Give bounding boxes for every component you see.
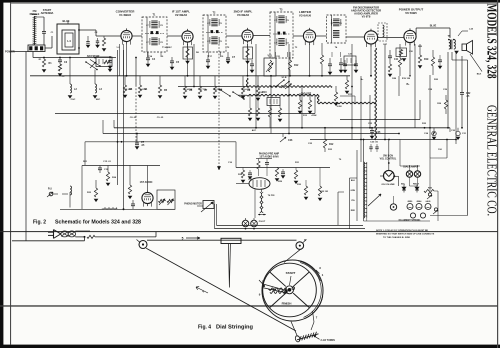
boxed resistor under V3 (243, 44, 253, 64)
svg-text:V3 6AU6: V3 6AU6 (299, 13, 312, 17)
wire speaker field return (430, 215, 468, 217)
wire long vertical 302 (301, 86, 303, 128)
svg-text:R6 470K: R6 470K (184, 88, 193, 91)
dial lamp L5 (406, 171, 412, 177)
wire phono cluster top (82, 165, 160, 167)
wire L4 to V1 grid (79, 30, 121, 36)
wire audio line (178, 44, 247, 95)
resistor R16 (334, 86, 338, 106)
wire long vertical 430 (429, 75, 431, 158)
FM antenna transformer L4 (57, 21, 80, 54)
svg-text:6BA6: 6BA6 (417, 200, 422, 203)
power output tube V6 (404, 30, 416, 42)
capacitor C25 (370, 128, 381, 139)
svg-text:6AU6: 6AU6 (426, 200, 431, 203)
resistor R43 (278, 106, 282, 122)
wire V1 pin drops (120, 44, 124, 76)
svg-text:R12: R12 (294, 64, 299, 67)
svg-text:V3 6BA6: V3 6BA6 (237, 13, 250, 17)
svg-text:OSC: OSC (71, 99, 76, 101)
pilot lamp P2 (251, 218, 258, 227)
capacitor C9 (328, 58, 332, 75)
resistor R4 (138, 76, 148, 98)
capacitor C17 (248, 170, 252, 179)
svg-text:TO THE CHASSIS B- SIDE: TO THE CHASSIS B- SIDE (383, 236, 410, 239)
tension spring (295, 332, 320, 343)
tuning gang dashed link (217, 44, 220, 170)
resistor R18 screen (398, 44, 401, 76)
wire long vertical 271 (270, 76, 272, 134)
svg-text:V6 50B5: V6 50B5 (405, 11, 417, 15)
wire V5 to V6 grid (378, 36, 404, 38)
svg-text:6BE6: 6BE6 (408, 201, 413, 203)
wire speaker voice coil return (448, 52, 468, 216)
resistor R42 (268, 106, 271, 128)
label 7 tension link (311, 311, 318, 330)
wire bus 141 segment (85, 142, 236, 168)
svg-text:PILOT: PILOT (259, 221, 266, 223)
note text (376, 229, 435, 239)
page border left bar (0, 0, 3, 348)
svg-text:C9 .05: C9 .05 (157, 117, 164, 119)
band switch wafer S1C (218, 88, 245, 100)
svg-text:R32 1M: R32 1M (320, 191, 328, 193)
tuning drum rim depth arcs (298, 261, 323, 319)
svg-text:R9 4.7M: R9 4.7M (242, 88, 250, 91)
capacitor C32 (460, 56, 471, 128)
svg-text:1ST AUDIO: 1ST AUDIO (140, 181, 153, 184)
tuning drum hub (285, 286, 295, 294)
electrolytic C31 (456, 128, 467, 140)
inner top border line (11, 3, 497, 5)
svg-text:Fig. 4: Fig. 4 (198, 324, 211, 330)
wire output secondary (455, 52, 457, 140)
ballast winding R33 (364, 140, 367, 219)
resistor R29 (275, 168, 279, 182)
svg-text:Fig. 2: Fig. 2 (33, 219, 46, 225)
horizontal divider under Fig.4 (0, 305, 498, 306)
svg-text:MODELS 324, 328: MODELS 324, 328 (484, 4, 499, 79)
svg-text:PHONO MOTOR: PHONO MOTOR (184, 204, 202, 206)
svg-text:R3 22K: R3 22K (124, 89, 132, 91)
preamp plate load parts (256, 159, 272, 177)
wire V6 plate to output transformer (416, 25, 450, 39)
capacitor C3 (58, 58, 68, 77)
shielded lead braid lower (247, 94, 318, 96)
filament heater V5V6 (425, 200, 431, 210)
potentiometer R27 (167, 199, 174, 205)
capacitor C4 (146, 52, 156, 67)
B plus terminal (433, 208, 438, 214)
svg-text:C20 .05: C20 .05 (370, 142, 378, 144)
horizontal divider under Fig.2 (0, 231, 498, 232)
bus wire B+ distribution (114, 127, 450, 129)
line cord plug (48, 230, 61, 239)
wire long vertical 370 (369, 95, 371, 128)
band switch wafer S1B (275, 77, 292, 89)
dial cord top run (147, 239, 297, 241)
resistor R41 (256, 95, 260, 120)
capacitor C5 (170, 57, 180, 70)
capacitor C7 (226, 52, 236, 64)
svg-text:2.2M: 2.2M (337, 106, 342, 108)
wire long vertical 123.5 (123, 50, 125, 209)
svg-text:R4 1M: R4 1M (140, 88, 147, 91)
output choke winding (258, 189, 266, 215)
wire audio tube top (147, 166, 149, 191)
ground bus (55, 113, 315, 115)
wire V3 plate to T3 (253, 35, 270, 37)
svg-text:FILAMENT STRING: FILAMENT STRING (399, 219, 421, 222)
phono coupling coil (62, 186, 72, 208)
resistor R3 (123, 76, 133, 98)
wire pilot feed left (338, 178, 357, 229)
wire line cord lower conductor (12, 231, 156, 241)
AM-FM switch S1 (85, 55, 101, 70)
cathode resistor R19 (418, 44, 429, 68)
detector tube V5 6T8 (364, 31, 377, 44)
resistor R23 (87, 180, 98, 202)
svg-text:BLK: BLK (351, 180, 356, 182)
svg-text:NOTE 1: FOR AC-DC OPERATION PL: NOTE 1: FOR AC-DC OPERATION PLUG MUST BE (376, 229, 429, 232)
capacitor C20 (370, 142, 379, 153)
dial cord long diagonal (146, 248, 296, 331)
preamp tube V4 6AV6 (236, 178, 270, 190)
svg-text:BLK: BLK (477, 74, 482, 76)
wire T2 to V3 (226, 35, 242, 37)
tuning drive arrow (368, 194, 381, 206)
resistor R9 (241, 76, 251, 99)
resistor R1 (102, 36, 106, 51)
svg-text:V5 6T8: V5 6T8 (362, 14, 371, 18)
shielded phono lead (102, 208, 117, 210)
tuning drum inner rim (263, 263, 317, 317)
cathode capacitor C16 (131, 200, 135, 209)
pilot lamp bus lower (215, 228, 366, 230)
rectifier filter circle (390, 196, 396, 210)
bus wire AM oscillator (33, 57, 116, 59)
discriminator caps (343, 60, 358, 73)
wire PSU interconnects (364, 140, 448, 222)
svg-text:C25: C25 (376, 131, 381, 134)
svg-text:R19 150: R19 150 (402, 78, 411, 80)
svg-text:T6 PRI: T6 PRI (268, 195, 275, 197)
svg-text:R8 100K: R8 100K (214, 89, 223, 91)
svg-text:Dial Stringing: Dial Stringing (216, 324, 253, 330)
wire preamp to pilot bus (254, 189, 256, 218)
wire long vertical 361 (360, 76, 362, 162)
bus wire AVC line (103, 133, 399, 135)
svg-text:C8 .05: C8 .05 (130, 117, 137, 119)
svg-text:GRN: GRN (351, 190, 356, 192)
discriminator transformer T4 (327, 15, 347, 43)
shielded lead braid upper (247, 86, 332, 88)
antenna terminal board (28, 45, 45, 52)
output cathode network box (396, 48, 414, 61)
svg-text:C26: C26 (288, 139, 293, 142)
main B+ bus (30, 75, 350, 77)
resistor R40 (248, 95, 252, 120)
pilot lamp bus upper (217, 224, 364, 226)
output transformer T5 (448, 35, 456, 49)
svg-text:R12: R12 (329, 143, 334, 146)
svg-text:S1-B: S1-B (282, 77, 287, 79)
resistor R30 (294, 168, 298, 184)
resistor R31 (304, 180, 308, 200)
drum to spring cord (291, 322, 298, 337)
svg-text:INSERTED SO THAT SWITCH SIDE O: INSERTED SO THAT SWITCH SIDE OF LINE CON… (376, 233, 435, 236)
svg-text:BLUE: BLUE (62, 19, 69, 23)
wire long vertical 289 (288, 44, 290, 134)
filament heater V1V2 (407, 201, 413, 210)
label 1 (316, 270, 324, 277)
detector filter box (267, 98, 280, 106)
capacitor C1 (35, 17, 47, 45)
svg-text:AVC: AVC (252, 129, 257, 132)
oscillator coil L3 (93, 70, 102, 99)
wire V1 plate to T1 (132, 35, 142, 37)
IF amplifier tube V2 (182, 31, 193, 42)
wire long vertical 117.5 (117, 50, 119, 185)
svg-text:V2 6BA6: V2 6BA6 (175, 13, 188, 17)
tone resistor R36 (437, 95, 447, 114)
IF transformer T1 (142, 14, 167, 52)
dial cord idler pulley left (137, 240, 148, 249)
svg-text:BLUE: BLUE (430, 25, 437, 28)
svg-text:2-1/2 TURNS: 2-1/2 TURNS (321, 339, 336, 342)
on-off switch S2 (380, 140, 399, 187)
svg-text:SEC: SEC (96, 99, 101, 101)
svg-text:ANTENNA: ANTENNA (41, 11, 54, 15)
component value labels (39, 32, 456, 223)
dial pointer needle (228, 244, 230, 288)
wire V4 plate to T4 (316, 35, 327, 37)
tuning drum spokes (270, 272, 309, 307)
wire antenna down-lead (26, 36, 52, 241)
2nd IF amplifier tube V3 (242, 30, 253, 41)
bus wire heater line (310, 139, 456, 141)
wire pilot bus bend (211, 204, 217, 229)
phono motor (184, 201, 214, 213)
B minus terminal (427, 193, 432, 199)
capacitor C14 (280, 134, 293, 143)
wire long vertical 352 (351, 44, 353, 140)
wire grid bus drops (148, 52, 341, 57)
wire long vertical 315 (314, 95, 316, 114)
page border top bar (0, 0, 500, 3)
wire heater step (340, 96, 420, 120)
twisted line cord (61, 231, 76, 237)
resistor R8 (213, 76, 223, 99)
filament heater second row (410, 213, 425, 218)
wire tube V1 cathode drop (126, 44, 128, 76)
page right edge line (497, 0, 498, 348)
svg-text:R19: R19 (424, 58, 429, 61)
dial cord idler pulley right (296, 238, 307, 249)
wire T4 to V5 (346, 36, 364, 38)
svg-text:DIPOLE: DIPOLE (30, 12, 40, 16)
wire power lead-in (11, 51, 28, 53)
capacitor C11 grid (388, 50, 399, 77)
potentiometer R26 (159, 199, 166, 205)
svg-text:VOL CONTROL: VOL CONTROL (380, 159, 397, 161)
svg-text:RECT: RECT (413, 184, 420, 186)
wire long vertical 415 (414, 44, 416, 128)
resistor R2 (42, 58, 52, 73)
PSU frame wire (356, 150, 358, 221)
wire tube V6 cathode drop (409, 44, 411, 76)
capacitor C35 (108, 58, 112, 69)
capacitor C8 (250, 60, 254, 73)
wire lamp feeds (410, 166, 418, 186)
svg-text:T1 456KC: T1 456KC (162, 46, 172, 49)
boxed resistor under V2 (183, 44, 200, 64)
capacitor C15 (98, 166, 109, 174)
svg-text:5: 5 (182, 236, 184, 240)
phono jack PU (47, 188, 58, 198)
resistor R17 (345, 76, 349, 94)
surge resistor R34 (424, 188, 438, 193)
wire preamp feed (236, 167, 330, 169)
grid resistor R25 (128, 166, 132, 199)
resistor R28 (241, 168, 245, 183)
ratio detector electrolytic block (344, 54, 356, 66)
wire long vertical 399 (398, 76, 400, 96)
wire long vertical 385 (384, 44, 386, 140)
oscillator box under V1 (96, 56, 112, 72)
svg-text:10M: 10M (392, 78, 396, 80)
resistor R22 (323, 128, 334, 152)
capacitor C19 (369, 144, 372, 152)
wire tube V4 cathode drop (309, 44, 311, 76)
dial cord pulley to drum (284, 249, 301, 262)
loop antenna L1 (32, 15, 37, 46)
volume control R11 (264, 55, 276, 77)
tone control R13 (298, 93, 302, 114)
selenium rectifier X1 (401, 184, 406, 193)
svg-text:L4: L4 (67, 39, 71, 43)
svg-text:1ST AUDIO 6AV6: 1ST AUDIO 6AV6 (259, 156, 279, 159)
svg-text:AM-FM SW: AM-FM SW (87, 55, 100, 58)
resistor R20 (431, 50, 434, 75)
resistor R32 (318, 168, 322, 201)
capacitor C13 (135, 134, 145, 150)
transformer lead labels (351, 180, 356, 212)
svg-text:470K: 470K (311, 114, 317, 117)
label FM discriminator ratio detector V5 6T8 (351, 5, 381, 18)
svg-text:Schematic for Models 324 and 3: Schematic for Models 324 and 328 (55, 219, 141, 225)
svg-text:START: START (286, 271, 296, 275)
converter tube V1 (121, 30, 132, 41)
label 5 arrow (182, 236, 200, 240)
tone control frame (157, 190, 175, 209)
speaker (458, 28, 482, 76)
capacitor C18 (281, 169, 285, 178)
capacitor C1B (96, 38, 100, 48)
svg-text:C11: C11 (394, 58, 399, 61)
selenium rectifier X2 (413, 184, 420, 193)
dial cord hub wrap (269, 288, 287, 294)
svg-text:P.U.: P.U. (48, 188, 53, 191)
svg-text:ON VOLUME: ON VOLUME (381, 184, 395, 186)
dial pointer carriage (221, 238, 241, 243)
resistor R14 (308, 93, 312, 114)
start arrow (290, 276, 292, 285)
IF transformer T3 (270, 9, 293, 58)
electrolytic C24 (424, 128, 436, 140)
oscillator coil L2 (68, 58, 77, 99)
dial lamp L6 (414, 171, 420, 177)
inner left border line (10, 3, 12, 345)
wire tube V2 cathode drop (187, 44, 189, 76)
wire T1 to V2 grid (167, 35, 182, 37)
resistor R6 (183, 76, 193, 99)
tuning drum outer rim (262, 260, 323, 321)
svg-text:SW-1 ON: SW-1 ON (383, 156, 393, 158)
capacitor C10 (339, 58, 343, 73)
svg-text:SEL: SEL (401, 184, 406, 186)
svg-text:FINISH: FINISH (282, 302, 292, 306)
capacitor C2 trimmer (86, 36, 90, 48)
ratio detector secondary (378, 23, 387, 41)
pilot lamp P1 (242, 218, 249, 227)
wire long vertical 136 (135, 58, 137, 86)
limiter tube V4 (303, 30, 315, 42)
wire tube V5 cathode drop (370, 44, 372, 76)
wire bus bends (103, 120, 456, 144)
page border bottom bar (0, 345, 500, 348)
first audio tube V4A (142, 192, 153, 203)
IF transformer T2 (203, 12, 226, 52)
wire long vertical AVC (255, 44, 257, 128)
resistor R5 (158, 76, 168, 98)
drum cord detail left (259, 280, 288, 297)
shielded lead braid right (246, 48, 376, 140)
svg-text:VOL: VOL (268, 55, 273, 58)
resistor R24 (106, 166, 117, 186)
svg-text:V1 6BE6: V1 6BE6 (119, 13, 131, 17)
ground speaker common (455, 51, 459, 54)
svg-text:C15 .01: C15 .01 (103, 161, 111, 163)
wire antenna board drop (32, 52, 34, 58)
svg-text:GENERAL ELECTRIC CO.: GENERAL ELECTRIC CO. (484, 105, 499, 216)
svg-text:2ND DET: 2ND DET (301, 93, 312, 96)
filament heater V3V4 (416, 200, 422, 210)
capacitor C33 (438, 55, 442, 69)
wire T3 to V4 limiter (293, 35, 303, 37)
svg-text:R7 1M: R7 1M (200, 89, 207, 91)
resistor R7 (198, 76, 208, 99)
wire phono cluster frame (60, 166, 175, 210)
resistor R10 (256, 76, 267, 101)
discriminator load R15 (320, 43, 323, 76)
svg-text:RED: RED (351, 210, 356, 212)
capacitor C6 (206, 55, 210, 69)
wire tube V3 cathode drop (247, 44, 249, 76)
resistor R12 (288, 52, 299, 76)
